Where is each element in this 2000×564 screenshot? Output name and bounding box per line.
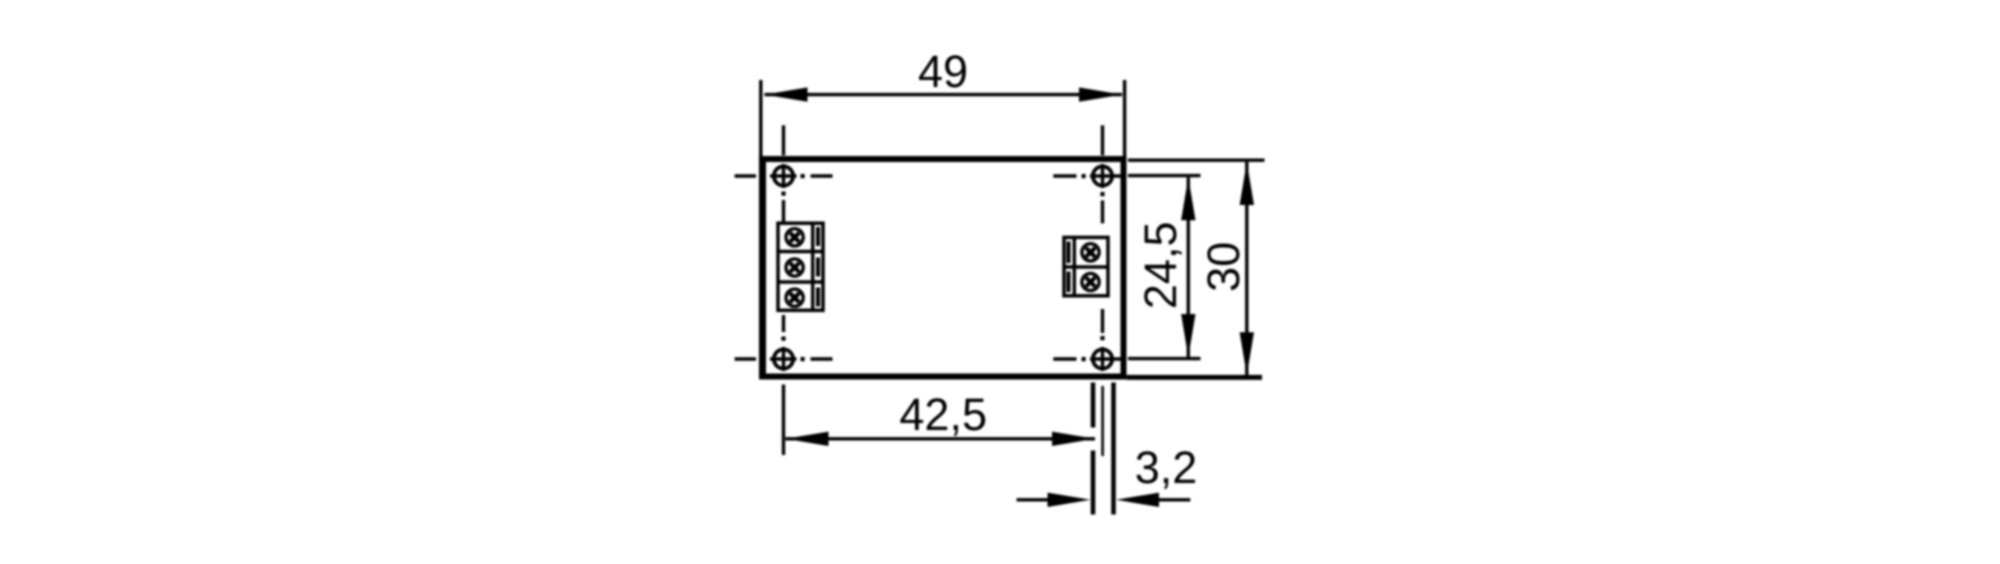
dimension 24,5 extension lines (1128, 176, 1201, 359)
dimension 42,5 line with arrows (786, 432, 1096, 446)
mounting hole bottom-left (770, 347, 797, 371)
centerlines top-left hole (735, 125, 833, 223)
mounting hole top-left (770, 164, 797, 188)
dimension 42,5 extension line (782, 385, 785, 456)
svg-text:49: 49 (918, 46, 968, 97)
terminal screws right block (1082, 244, 1099, 291)
dimension 49 extension lines (761, 80, 1125, 156)
mounting hole top-right (1090, 164, 1123, 188)
dimension 49 line with arrows (765, 87, 1123, 101)
mounting hole bottom-right (1090, 347, 1123, 371)
dimension 24,5 line with arrows (1181, 177, 1195, 357)
dimension 30 extension lines (1127, 160, 1265, 377)
svg-text:3,2: 3,2 (1135, 442, 1198, 493)
terminal screws left block (786, 229, 803, 307)
centerlines top-right hole (1053, 125, 1104, 223)
terminal block right (2-pole) (1064, 237, 1108, 295)
dimension 30 line with arrows (1240, 162, 1254, 375)
dimension 3,2 arrows (1017, 493, 1191, 507)
svg-text:30: 30 (1198, 242, 1249, 292)
dimension 3,2 extension lines (1093, 383, 1114, 515)
module outline rectangle (760, 156, 1123, 380)
centerlines bottom-left hole (735, 315, 833, 361)
terminal block left (3-pole) (778, 223, 823, 310)
svg-text:42,5: 42,5 (899, 389, 987, 440)
centerlines bottom-right hole (1053, 309, 1104, 361)
svg-text:24,5: 24,5 (1135, 222, 1186, 310)
